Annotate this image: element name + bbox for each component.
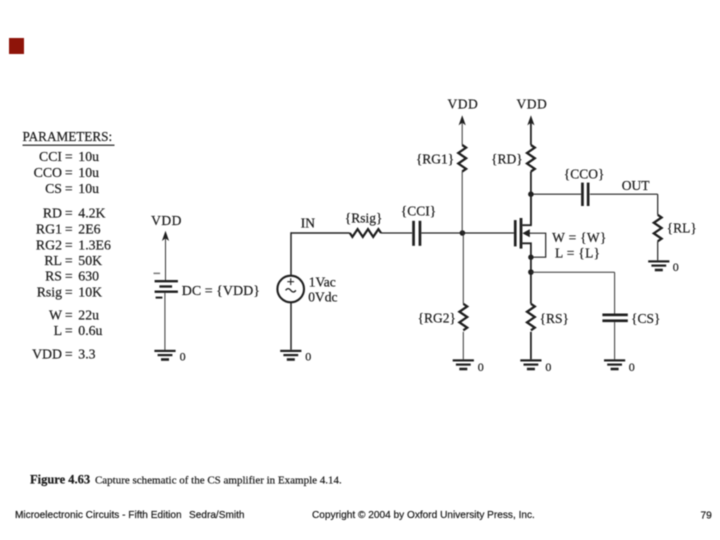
svg-text:0: 0 xyxy=(545,360,551,374)
wire RG1 to gate node xyxy=(461,172,463,234)
capacitor CCI label xyxy=(401,203,436,218)
svg-text:{CS}: {CS} xyxy=(631,311,660,326)
svg-text:=: = xyxy=(65,253,73,268)
svg-text:10K: 10K xyxy=(78,285,102,300)
svg-text:=: = xyxy=(65,165,73,180)
svg-text:2E6: 2E6 xyxy=(78,222,100,237)
node junction dot (drain node) xyxy=(528,191,534,197)
svg-text:22u: 22u xyxy=(78,308,99,323)
svg-text:=: = xyxy=(65,222,73,237)
capacitor CCO plates xyxy=(581,183,589,206)
svg-text:50K: 50K xyxy=(78,253,102,268)
wire RS node to CS branch xyxy=(531,272,615,313)
capacitor CS plates xyxy=(602,314,627,323)
resistor RG1 zigzag xyxy=(458,145,466,172)
parameters list heading xyxy=(23,129,115,146)
ground node 0 label (ac source) xyxy=(305,350,311,364)
transistor M1 gate bar xyxy=(514,220,517,246)
svg-text:{RG1}: {RG1} xyxy=(416,151,454,166)
parameter RG2 = 1.3E6 xyxy=(36,238,111,253)
wire Rsig to CCI xyxy=(381,232,412,234)
svg-text:Sedra/Smith: Sedra/Smith xyxy=(189,510,245,521)
transistor M1 bulk arrow xyxy=(522,229,545,257)
ground under RS xyxy=(520,359,541,370)
svg-text:=: = xyxy=(65,308,73,323)
svg-text:CCI: CCI xyxy=(39,149,62,164)
svg-text:10u: 10u xyxy=(78,165,99,180)
wire source node down to RS node xyxy=(530,257,532,304)
svg-text:=: = xyxy=(65,181,73,196)
svg-text:0: 0 xyxy=(180,349,186,363)
svg-text:3.3: 3.3 xyxy=(78,347,95,362)
capacitor CCI plates xyxy=(412,221,421,246)
svg-text:PARAMETERS:: PARAMETERS: xyxy=(23,129,113,144)
svg-text:W = {W}: W = {W} xyxy=(552,230,607,245)
svg-text:{RD}: {RD} xyxy=(491,151,523,166)
node OUT label xyxy=(622,178,650,193)
svg-text:CCO: CCO xyxy=(34,165,62,180)
footer book title xyxy=(15,510,245,521)
svg-text:W: W xyxy=(49,308,62,323)
ground under RG2 xyxy=(453,359,474,370)
power symbol VDD (battery branch) label xyxy=(151,213,182,228)
ground under CS xyxy=(604,359,625,370)
ground node 0 label (CS) xyxy=(629,360,635,374)
svg-text:Microelectronic Circuits - Fif: Microelectronic Circuits - Fifth Edition xyxy=(15,510,182,521)
parameter Rsig = 10K xyxy=(37,285,102,300)
svg-text:DC = {VDD}: DC = {VDD} xyxy=(182,284,260,299)
svg-text:L: L xyxy=(54,323,62,338)
svg-text:RG2: RG2 xyxy=(36,238,62,253)
resistor RG2 zigzag xyxy=(459,304,467,330)
transistor M1 drain stub xyxy=(522,194,531,225)
resistor Rsig label xyxy=(345,211,383,226)
footer page number 79 xyxy=(701,511,713,522)
parameter CCI = 10u xyxy=(39,149,99,164)
ac source value labels 1Vac 0Vdc xyxy=(308,275,337,305)
power symbol VDD arrow (battery branch) xyxy=(162,231,169,280)
svg-text:0: 0 xyxy=(478,360,484,374)
wire IN corner to Rsig xyxy=(291,232,350,275)
wire RS to ground xyxy=(530,332,532,360)
svg-text:Copyright © 2004 by Oxford Uni: Copyright © 2004 by Oxford University Pr… xyxy=(312,510,535,521)
svg-text:=: = xyxy=(65,238,73,253)
figure caption xyxy=(30,473,342,487)
parameter RL = 50K xyxy=(44,253,102,268)
node junction dot (source/bulk tie) xyxy=(528,255,533,260)
parameter W = 22u xyxy=(49,308,99,323)
svg-text:0: 0 xyxy=(673,260,679,274)
svg-text:Figure 4.63 Capture schematic: Figure 4.63 Capture schematic of the CS … xyxy=(30,473,342,487)
power symbol VDD label (RD branch) xyxy=(517,96,548,111)
svg-text:=: = xyxy=(65,269,73,284)
node junction dot (RS/CS node) xyxy=(528,269,534,275)
transistor L parameter label xyxy=(555,245,600,260)
svg-text:OUT: OUT xyxy=(622,178,650,193)
svg-text:VDD: VDD xyxy=(151,213,182,228)
resistor RL label xyxy=(667,221,697,236)
wire RL to ground xyxy=(657,241,659,260)
wire RD to drain node xyxy=(530,172,532,226)
svg-text:VDD: VDD xyxy=(517,96,548,111)
svg-text:RD: RD xyxy=(43,206,62,221)
parameter VDD = 3.3 xyxy=(32,347,96,362)
svg-text:1.3E6: 1.3E6 xyxy=(78,238,111,253)
parameter CCO = 10u xyxy=(34,165,99,180)
resistor RD zigzag xyxy=(527,145,535,172)
resistor RD label xyxy=(491,151,523,166)
parameter L = 0.6u xyxy=(54,323,103,338)
parameter CS = 10u xyxy=(45,181,99,196)
svg-text:=: = xyxy=(65,285,73,300)
ground node 0 label (RG2) xyxy=(478,360,484,374)
svg-text:10u: 10u xyxy=(78,149,99,164)
capacitor CCO label xyxy=(564,167,605,182)
svg-text:CS: CS xyxy=(45,181,62,196)
footer copyright xyxy=(312,510,535,521)
svg-text:VDD: VDD xyxy=(448,96,479,111)
svg-text:RL: RL xyxy=(44,253,62,268)
svg-text:{RG2}: {RG2} xyxy=(418,311,456,326)
node junction dot (gate node) xyxy=(460,230,466,236)
parameter RS = 630 xyxy=(45,269,99,284)
svg-text:4.2K: 4.2K xyxy=(78,206,105,221)
svg-text:=: = xyxy=(65,149,73,164)
svg-text:{CCI}: {CCI} xyxy=(401,203,436,218)
battery V_DD source plates xyxy=(154,273,178,299)
svg-text:630: 630 xyxy=(78,269,99,284)
svg-text:{RL}: {RL} xyxy=(667,221,697,236)
wire RG2 to ground xyxy=(462,332,464,360)
power symbol VDD arrow (RG1 branch) xyxy=(459,115,466,145)
svg-text:0: 0 xyxy=(305,350,311,364)
ground node 0 label (RS) xyxy=(545,360,551,374)
wire drain node to CCO xyxy=(531,193,581,195)
parameter RG1 = 2E6 xyxy=(36,222,101,237)
transistor W parameter label xyxy=(552,230,607,245)
resistor RG1 label xyxy=(416,151,454,166)
svg-text:10u: 10u xyxy=(78,181,99,196)
battery value label DC = {VDD} xyxy=(182,284,260,299)
resistor RL zigzag xyxy=(654,215,662,242)
resistor RS label xyxy=(540,311,569,326)
svg-text:{CCO}: {CCO} xyxy=(564,167,605,182)
svg-text:IN: IN xyxy=(301,215,315,230)
ground under RL xyxy=(648,260,669,271)
resistor RS zigzag xyxy=(527,304,535,330)
wire CCI to gate xyxy=(421,232,514,234)
svg-text:1Vac: 1Vac xyxy=(309,275,336,290)
wire CCO to OUT corner xyxy=(590,194,658,215)
ground node 0 label (battery) xyxy=(180,349,186,363)
power symbol VDD arrow (RD branch) xyxy=(527,115,534,145)
parameter RD = 4.2K xyxy=(43,206,106,221)
power symbol VDD label (RG1 branch) xyxy=(448,96,479,111)
ground under battery xyxy=(154,350,175,361)
svg-text:RG1: RG1 xyxy=(36,222,62,237)
svg-text:Rsig: Rsig xyxy=(37,285,62,300)
svg-text:0: 0 xyxy=(629,360,635,374)
capacitor CS label xyxy=(631,311,660,326)
resistor RG2 label xyxy=(418,311,456,326)
wire CS to ground xyxy=(614,322,616,359)
resistor Rsig zigzag xyxy=(350,229,381,237)
wire ac source to ground xyxy=(290,303,292,350)
svg-text:79: 79 xyxy=(701,511,713,522)
svg-text:=: = xyxy=(65,347,73,362)
svg-text:0.6u: 0.6u xyxy=(78,323,102,338)
node IN label xyxy=(301,215,315,230)
svg-text:=: = xyxy=(65,323,73,338)
ground node 0 label (RL) xyxy=(673,260,679,274)
svg-text:{Rsig}: {Rsig} xyxy=(345,211,383,226)
transistor M1 channel bar xyxy=(520,218,523,249)
ground under ac source xyxy=(280,350,301,361)
svg-text:VDD: VDD xyxy=(32,347,62,362)
svg-text:{RS}: {RS} xyxy=(540,311,569,326)
svg-text:L = {L}: L = {L} xyxy=(555,245,600,260)
ac source VSIG circle xyxy=(277,276,304,303)
svg-text:RS: RS xyxy=(45,269,62,284)
svg-text:=: = xyxy=(65,206,73,221)
transistor M1 source stub xyxy=(522,243,531,257)
wire gate node to RG2 xyxy=(462,233,464,304)
wire battery to ground xyxy=(164,293,166,350)
svg-text:0Vdc: 0Vdc xyxy=(308,290,337,305)
